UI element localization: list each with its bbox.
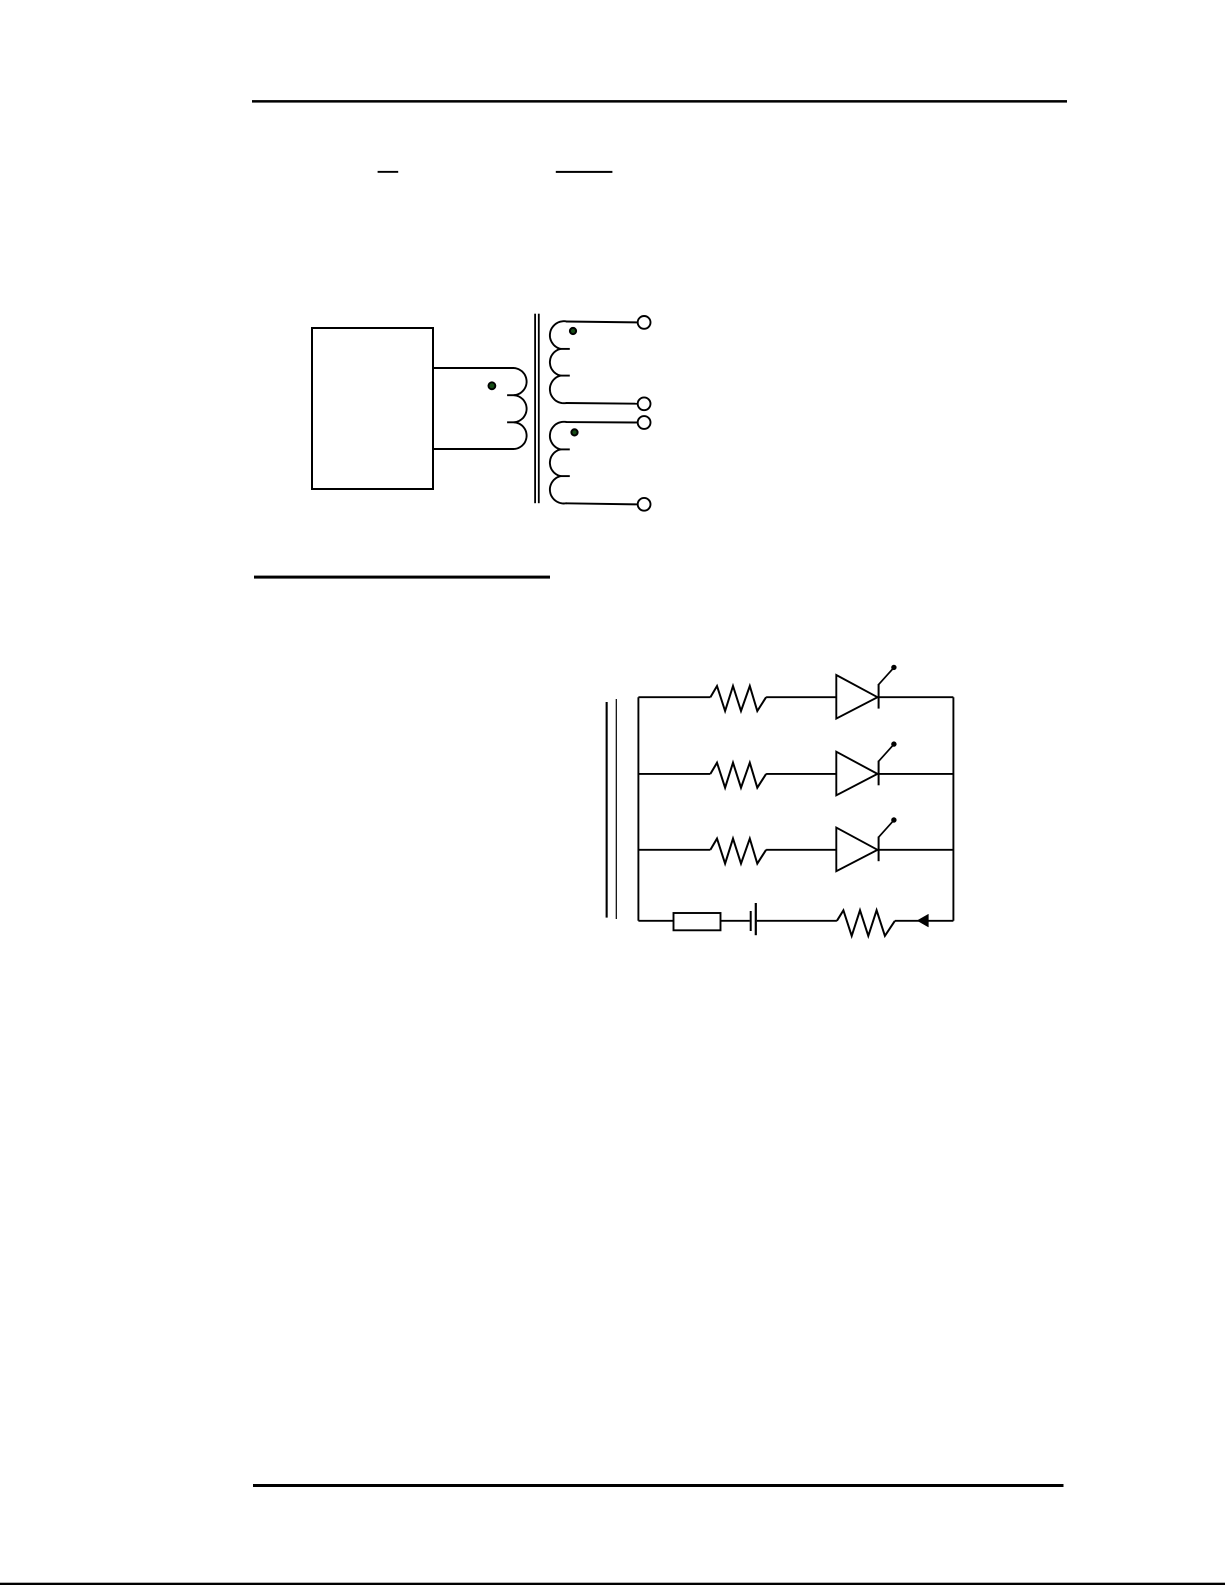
terminal 3 [638,416,651,429]
wire battery to R4 [757,920,837,922]
resistor R4 [837,910,895,936]
SCR Q2 triangle [836,752,877,796]
secondary winding S2 [550,422,567,504]
wire R4 to right bus [895,920,954,922]
supply winding line thick [606,702,608,918]
blank underline 2 [556,171,613,173]
polarity dot primary [488,382,495,389]
SCR Q3 triangle [836,828,877,872]
wire R1 to SCR1 [766,696,836,698]
wire branch1 left [638,696,710,698]
primary cusp tick 2 [507,421,514,423]
wire primary bottom [433,448,514,450]
terminal 4 [638,498,651,511]
SCR Q1 gate dot [891,665,896,670]
footer rule [253,1484,1064,1487]
resistor R3 [710,839,766,864]
SCR Q1 cathode bar [878,684,880,709]
wire S1 top [566,321,638,324]
primary winding P1 [514,368,527,449]
terminal 2 [638,397,651,410]
section heading underline [254,576,550,579]
SCR Q2 cathode bar [878,761,880,786]
core right lamination [538,314,540,504]
battery B1 short plate [750,911,752,931]
resistor R2 [710,763,766,788]
page edge line [0,1583,1225,1585]
secondary winding S1 [550,321,567,403]
battery B1 long plate [755,903,757,935]
primary cusp tick 1 [507,394,514,396]
left bus wire [637,697,639,921]
wire S2 top [566,421,638,423]
SCR Q2 gate dot [891,741,896,746]
wire primary top [433,367,514,369]
right bus wire [952,697,954,921]
S1 cusp tick 2 [560,375,570,377]
block component X1 [674,913,721,930]
wire R3 to SCR3 [766,849,836,851]
source box U1 [312,328,433,489]
wire branch3 right [879,849,954,851]
polarity dot S2 [571,429,577,435]
SCR Q1 triangle [836,675,877,719]
wire bottom left [638,920,673,922]
wire branch2 right [879,773,954,775]
SCR Q3 cathode bar [878,837,880,862]
resistor R1 [710,686,766,711]
wire branch1 right [879,696,954,698]
wire branch2 left [638,773,710,775]
supply winding line thin [616,699,617,919]
blank underline 1 [378,171,399,173]
top rule [252,100,1067,103]
SCR Q3 gate dot [891,817,896,822]
wire S1 bottom [566,402,638,405]
wire S2 bottom [566,503,638,504]
wire branch3 left [638,849,710,851]
SCR Q1 gate lead [879,669,893,685]
core left lamination [534,314,536,504]
SCR Q3 gate lead [879,822,893,838]
wire R2 to SCR2 [766,773,836,775]
terminal 1 [638,316,651,329]
wire X1 to battery [721,920,750,922]
S2 cusp tick 2 [560,475,570,477]
S2 cusp tick 1 [560,448,570,450]
SCR Q2 gate lead [879,746,893,762]
S1 cusp tick 1 [560,348,570,350]
current arrowhead [917,914,928,927]
polarity dot S1 [570,328,576,334]
